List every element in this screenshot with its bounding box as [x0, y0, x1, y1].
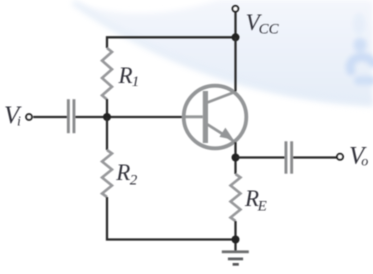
node junction at VCC rail — [232, 33, 240, 41]
svg-text:1: 1 — [132, 74, 140, 90]
svg-text:R: R — [118, 63, 133, 88]
wire R2 to bottom rail and rail to ground node — [107, 197, 236, 240]
terminal Vo — [337, 154, 343, 160]
svg-text:CC: CC — [259, 21, 280, 37]
wire node to R2 — [106, 117, 108, 150]
watermark swoosh band top-right — [73, 0, 373, 104]
transistor Q1 base lead — [183, 115, 203, 118]
capacitor C2 output plates — [285, 141, 288, 173]
node A base divider junction — [103, 113, 111, 121]
svg-text:R: R — [115, 160, 130, 185]
resistor R1 — [102, 48, 112, 99]
wire RE bottom to ground — [234, 221, 236, 251]
svg-text:E: E — [257, 198, 267, 214]
wire input capacitor to base — [75, 116, 183, 118]
capacitor C1 input plates — [67, 99, 70, 133]
wire VCC stub — [234, 12, 236, 37]
wire emitter node to output capacitor — [236, 156, 285, 158]
watermark swoosh lower edge emphasis — [73, 2, 373, 104]
terminal VCC — [233, 6, 239, 12]
resistor RE — [231, 174, 241, 221]
svg-text:2: 2 — [130, 172, 138, 188]
node ground junction — [232, 236, 240, 244]
transistor Q1 collector lead — [206, 92, 236, 104]
watermark letterform blobs right edge — [350, 13, 373, 85]
wire output capacitor to Vo — [293, 156, 336, 158]
wire collector to rail — [234, 37, 236, 91]
ground — [222, 250, 249, 253]
wire top rail with left drop to R1 — [107, 37, 236, 48]
transistor Q1 circle — [184, 86, 247, 149]
transistor Q1 emitter lead — [206, 124, 236, 143]
wire R1 bottom to node — [106, 99, 108, 118]
svg-text:o: o — [361, 155, 368, 170]
resistor R2 — [102, 150, 112, 197]
wire Vi to input capacitor — [33, 116, 67, 118]
wire emitter down to node — [234, 142, 236, 174]
transistor Q1 base bar — [203, 91, 208, 143]
node emitter output junction — [232, 154, 240, 162]
transistor Q1 emitter arrow — [219, 128, 233, 140]
svg-text:i: i — [17, 114, 21, 129]
terminal Vi — [26, 114, 32, 120]
